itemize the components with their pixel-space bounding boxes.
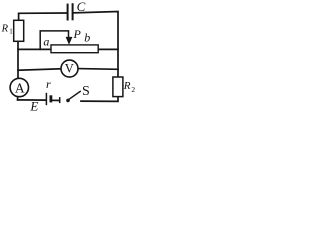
potentiometer wiper arrow <box>66 37 73 45</box>
voltmeter V <box>61 60 78 77</box>
svg-text:V: V <box>65 62 74 76</box>
svg-text:a: a <box>43 35 49 49</box>
wire switch to bottom-right corner up to R2 <box>81 97 118 102</box>
svg-text:R: R <box>123 80 131 92</box>
svg-text:A: A <box>15 80 25 95</box>
capacitor C plates <box>68 3 73 20</box>
svg-text:C: C <box>77 0 86 14</box>
svg-text:S: S <box>82 84 90 99</box>
wire wiper bracket (a to wiper P) <box>40 31 68 50</box>
wire pot left stub <box>18 48 51 50</box>
svg-text:P: P <box>73 27 82 41</box>
wire voltmeter right <box>78 68 118 71</box>
svg-text:1: 1 <box>9 28 13 36</box>
wire bottom-left to battery <box>18 99 46 101</box>
svg-text:2: 2 <box>131 85 135 94</box>
resistor R2 <box>113 77 123 97</box>
svg-text:r: r <box>46 77 51 91</box>
svg-text:R: R <box>1 24 9 35</box>
battery E short plate <box>50 95 53 102</box>
switch S lever <box>69 91 81 100</box>
switch S fixed contact tick <box>59 97 61 103</box>
battery E long plate <box>45 93 47 105</box>
wire battery to switch contact <box>52 99 59 101</box>
wire left side R1 to ammeter <box>17 41 19 78</box>
svg-text:b: b <box>84 30 90 44</box>
wire pot right stub <box>98 48 118 50</box>
potentiometer P body <box>51 45 98 53</box>
ammeter A <box>10 78 28 96</box>
wire top-right and right side down to R2 <box>74 12 118 78</box>
svg-text:E: E <box>29 99 38 114</box>
resistor R1 <box>14 20 24 41</box>
switch S pivot dot <box>66 99 70 103</box>
wire ammeter bottom stub <box>17 96 19 100</box>
wire voltmeter left <box>18 69 61 70</box>
wire top-left (corner to capacitor) <box>19 13 67 21</box>
